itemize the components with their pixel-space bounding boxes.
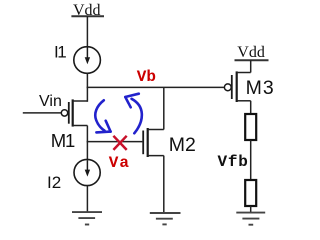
svg-text:M3: M3 [246, 77, 274, 99]
svg-text:M2: M2 [169, 134, 196, 156]
resistor R2 [245, 180, 256, 206]
ground (under I2) [72, 212, 102, 224]
wire node Vb horizontal [87, 86, 225, 88]
current source I2 [74, 159, 100, 185]
current source I1 [74, 47, 101, 74]
blue arrow right (Va to Vb) [125, 94, 142, 134]
power rail Vdd left [71, 15, 104, 17]
resistor R1 [245, 114, 256, 140]
wire M1 source down to I2, node Va tee [86, 126, 88, 160]
wire R2 to ground [250, 206, 252, 213]
wire M2 drain up to node Vb [163, 87, 165, 129]
svg-text:Vdd: Vdd [237, 44, 265, 61]
svg-text:Vb: Vb [137, 68, 156, 86]
transistor M3 (PMOS) [224, 71, 250, 102]
svg-text:M1: M1 [51, 130, 75, 151]
wire rail to M3 source [250, 60, 252, 72]
wire M3 drain to resistor R1 [250, 101, 252, 114]
power rail Vdd right [235, 59, 269, 61]
X mark on node Va [113, 136, 126, 150]
svg-text:I2: I2 [47, 173, 61, 192]
transistor M2 (NMOS) [143, 128, 164, 157]
svg-text:I1: I1 [54, 43, 66, 62]
wire R1 to R2, node Vfb [250, 140, 252, 180]
svg-text:Vfb: Vfb [218, 153, 249, 171]
wire M2 source down to ground [163, 156, 165, 213]
wire rail to I1 [86, 16, 88, 47]
wire Vin to M1 gate [23, 112, 62, 114]
transistor M1 (PMOS) [61, 99, 87, 126]
wire node Va horizontal [87, 141, 143, 143]
ground (under M2) [150, 213, 181, 224]
svg-text:Va: Va [109, 154, 130, 172]
wire I1 to M1 drain / node Vb tee [86, 73, 88, 102]
wire I2 to ground [86, 186, 88, 212]
svg-text:Vin: Vin [39, 93, 62, 110]
ground (under R2) [236, 213, 265, 225]
blue arrow left (Vb to Va) [95, 100, 110, 132]
